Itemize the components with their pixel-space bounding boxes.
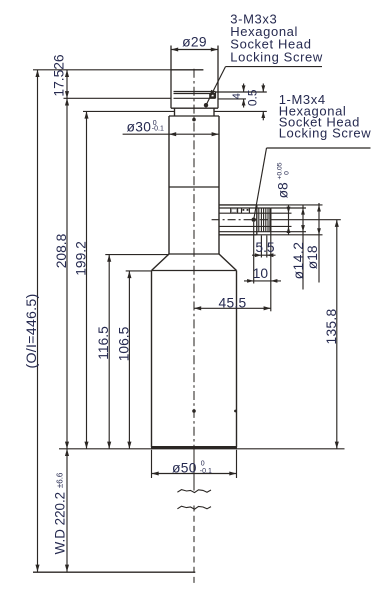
label 1-M3x4 leader dot: [252, 218, 256, 222]
dim 45.5 line: [194, 306, 271, 310]
dim 0.5 text: [246, 89, 260, 106]
locking ring groove lines: [174, 92, 216, 99]
label 1-M3x4 underline: [267, 147, 371, 149]
break line upper: [177, 490, 211, 493]
svg-text:ø30: ø30: [127, 120, 152, 135]
break line lower: [177, 506, 211, 509]
ext 5.5 right: [266, 236, 268, 258]
cap right edge + ø29 extension: [217, 46, 219, 109]
dim 106.5 line: [127, 271, 131, 449]
ext ø18 bottom (right): [257, 234, 323, 236]
port bottom (ø18): [219, 234, 257, 236]
dim 10 line: [244, 279, 281, 283]
svg-text:ø50: ø50: [172, 461, 197, 476]
dim 17.526-208.8-WD line: [65, 70, 69, 572]
ext 5.5 left: [260, 236, 262, 258]
port step face: [256, 205, 258, 235]
label 1-M3x4 text: [279, 92, 372, 141]
ext body bottom (full width): [59, 448, 345, 450]
svg-text:4: 4: [231, 93, 243, 99]
svg-text:199.2: 199.2: [73, 241, 88, 276]
svg-text:208.8: 208.8: [54, 233, 69, 268]
tube left edge: [168, 116, 170, 254]
ext ø8 bottom (right): [271, 225, 292, 227]
dim 4 text: [231, 93, 243, 99]
body left edge: [151, 271, 153, 448]
ext ø50 left: [151, 450, 153, 478]
tube top shoulder: [169, 115, 219, 117]
dim ø14.2 text: [291, 242, 306, 280]
ext groove bottom (right): [218, 98, 246, 100]
dim 5.5 text: [255, 240, 275, 255]
body bottom face (thick): [151, 446, 237, 449]
cap top face (ø29 section): [171, 69, 203, 71]
ext neck bottom (left): [83, 110, 175, 112]
ext ø18 top (right): [257, 204, 323, 206]
dim 0.5 arrows: [261, 84, 265, 121]
ext cone top (left): [105, 254, 169, 256]
svg-text:0: 0: [201, 461, 205, 468]
svg-text:(O/I=446.5): (O/I=446.5): [24, 294, 40, 369]
dim 4 arrows: [242, 84, 246, 108]
centre dot lower: [192, 409, 196, 413]
dim 135.8 line: [335, 220, 339, 449]
ground reference line: [33, 571, 195, 573]
svg-text:106.5: 106.5: [116, 326, 131, 361]
port thread lines: [259, 208, 270, 232]
dim 5.5 line: [252, 253, 276, 257]
port ø8 bore bottom: [220, 225, 271, 227]
svg-text:Locking Screw: Locking Screw: [279, 126, 372, 141]
port horizontal centerline: [212, 219, 341, 221]
svg-text:0.5: 0.5: [246, 89, 260, 106]
ext groove top (right): [216, 91, 267, 93]
label 3-M3x3 leader dot: [204, 103, 208, 107]
vertical centerline: [193, 69, 195, 585]
svg-text:135.8: 135.8: [324, 308, 339, 344]
centre dot upper: [192, 118, 196, 122]
svg-text:45.5: 45.5: [218, 296, 246, 311]
svg-text:17.526: 17.526: [52, 54, 67, 97]
dim 199.2 text: [73, 241, 88, 276]
svg-text:Locking Screw: Locking Screw: [230, 50, 323, 65]
svg-text:116.5: 116.5: [96, 326, 111, 360]
dim 106.5 text: [116, 326, 131, 361]
svg-text:10: 10: [253, 266, 269, 281]
svg-text:ø29: ø29: [182, 35, 207, 50]
dim ø8 text: [275, 162, 290, 198]
dim ø50 line: [152, 471, 237, 475]
dim 116.5 text: [96, 326, 111, 360]
dim 17.526 text: [52, 54, 67, 97]
port ø8 bore top: [220, 212, 271, 214]
dim O/I text: [24, 294, 40, 369]
dim ø30 text: [127, 120, 164, 135]
body top line: [152, 270, 237, 272]
ext groove bottom (left): [64, 97, 172, 99]
dim 45.5 text: [218, 296, 246, 311]
ext port face down: [270, 232, 272, 312]
dim ø30 line: [123, 132, 219, 136]
ext body top (left): [126, 270, 152, 272]
svg-text:5.5: 5.5: [255, 240, 275, 255]
label 3-M3x3 leader: [206, 67, 226, 106]
dim ø8 line: [287, 205, 291, 235]
label 3-M3x3 underline: [226, 66, 323, 68]
dim ø18 text: [305, 245, 320, 269]
ext ø50 right: [236, 450, 238, 478]
tube right edge: [218, 116, 220, 254]
port screw hole B: [242, 208, 250, 213]
dim 116.5 line: [107, 255, 111, 449]
neck: [175, 108, 215, 116]
svg-text:-0.1: -0.1: [200, 468, 212, 475]
cone top line: [169, 253, 219, 255]
dim 135.8 text: [324, 308, 339, 344]
ext top surface (left): [33, 69, 171, 71]
ext ø8 top (right): [271, 212, 292, 214]
cap bottom face: [171, 107, 218, 109]
dim 10 text: [253, 266, 269, 281]
dim 199.2 line: [84, 111, 88, 448]
port screw hole A: [231, 208, 238, 213]
ext ø14.2 top (right): [271, 207, 306, 209]
dim ø14.2 line: [301, 206, 305, 290]
set screw in groove: [209, 93, 215, 98]
cap left edge + ø29 extension: [170, 46, 172, 109]
body right edge: [236, 271, 238, 448]
dim 208.8 text: [54, 233, 69, 268]
label 1-M3x4 leader: [254, 148, 267, 220]
dim W.D text: [53, 472, 68, 554]
svg-text:ø18: ø18: [305, 245, 320, 269]
tube joint line: [169, 186, 219, 188]
port ø14.2 bottom: [219, 231, 271, 233]
port ø14.2 top: [219, 207, 271, 209]
cone left: [152, 254, 170, 271]
dim ø29 line: [171, 47, 218, 51]
edge dot: [234, 410, 237, 413]
ext ø14.2 bottom (right): [271, 231, 306, 233]
svg-text:ø8: ø8: [275, 182, 290, 198]
ext neck bottom (right): [214, 110, 267, 112]
label 3-M3x3 text: [230, 11, 323, 64]
svg-text:-0.1: -0.1: [152, 126, 164, 133]
svg-text:0: 0: [284, 171, 291, 175]
port outer face: [270, 208, 272, 232]
svg-text:+0.05: +0.05: [277, 162, 284, 179]
ext 10 left (screw centre): [253, 222, 255, 284]
dim ø50 text: [172, 461, 212, 476]
dim ø29 text: [182, 35, 207, 50]
svg-text:ø14.2: ø14.2: [291, 242, 306, 280]
dim ø18 line: [317, 203, 321, 283]
cone right: [219, 254, 237, 271]
dim O/I line: [35, 70, 39, 572]
port top (ø18): [219, 204, 257, 206]
